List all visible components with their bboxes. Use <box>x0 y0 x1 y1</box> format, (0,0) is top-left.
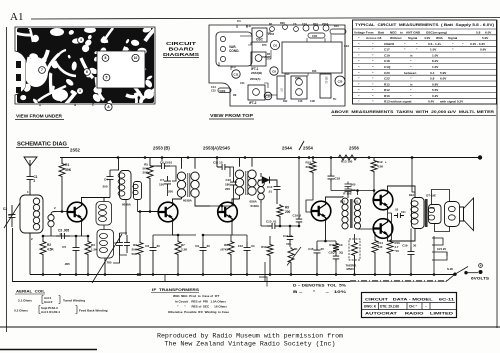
output emitters join <box>388 208 392 222</box>
svg-text:Feed Back Winding: Feed Back Winding <box>79 309 108 313</box>
junction dots stage3 <box>202 273 205 276</box>
pcb circled pad 3 <box>77 88 84 95</box>
svg-text:Gnd:2: Gnd:2 <box>44 300 53 304</box>
svg-text:C19: C19 <box>402 244 408 248</box>
measurements table frame <box>353 20 497 104</box>
svg-text:Otherwise Possible IFC Wind: Otherwise Possible IFC Winding to Case <box>168 310 229 314</box>
capacitors .005 .002 <box>345 184 352 198</box>
resistor R2 <box>42 236 44 240</box>
svg-text:B51: B51 <box>354 200 359 204</box>
resistor R14 <box>374 232 376 239</box>
svg-text:5.8: 5.8 <box>476 30 481 34</box>
svg-text:2S53(A)/2S4S: 2S53(A)/2S4S <box>203 146 230 151</box>
svg-text:ABOVE MEASUREMENTS TAKEN WI: ABOVE MEASUREMENTS TAKEN WITH 20,000 Ω/V… <box>331 110 495 114</box>
svg-text:R1: R1 <box>65 163 69 167</box>
svg-text:C11: C11 <box>240 81 245 85</box>
svg-text:CH: *: CH: * <box>409 305 418 309</box>
junction dots stage2 <box>139 273 142 276</box>
wire driver bias bus <box>331 190 374 192</box>
svg-text:4.0V: 4.0V <box>424 36 431 40</box>
svg-text:OSC: OSC <box>256 38 264 42</box>
svg-text:C16: C16 <box>308 247 314 251</box>
svg-text:R10: R10 <box>261 245 267 249</box>
svg-text:Tuned Winding: Tuned Winding <box>63 299 85 303</box>
capacitor C19 <box>410 229 412 248</box>
svg-text:OT-19E: OT-19E <box>426 194 436 198</box>
2S52 emitter wire <box>81 220 83 237</box>
transistor C9 on board <box>270 67 278 75</box>
svg-text:R8: R8 <box>224 243 228 247</box>
svg-text:5.0V: 5.0V <box>482 36 489 40</box>
svg-text:*10: *10 <box>395 249 400 253</box>
svg-text:TYPICAL CIRCUIT MEASUREMENTS: TYPICAL CIRCUIT MEASUREMENTS ( Batt Supp… <box>355 23 494 27</box>
svg-text:0.2V: 0.2V <box>432 94 439 98</box>
thermistor M560 <box>349 239 360 260</box>
svg-text:10: 10 <box>134 56 138 60</box>
earphone jack <box>432 238 443 245</box>
svg-text:2S54: 2S54 <box>303 146 313 151</box>
svg-text:8: 8 <box>105 56 107 60</box>
output transformer OT-19E <box>412 158 415 198</box>
svg-text:With: With <box>436 36 443 40</box>
svg-text:Voltage From: Voltage From <box>354 30 374 34</box>
credit strip rule <box>0 326 500 328</box>
svg-text:2.2K: 2.2K <box>181 248 188 252</box>
svg-text:0.2 Ohms: 0.2 Ohms <box>14 309 28 313</box>
svg-text:.05: .05 <box>395 208 399 212</box>
svg-text:R16: R16 <box>312 70 317 73</box>
output transformer on board <box>277 76 285 99</box>
antenna <box>24 157 37 173</box>
svg-text:to: to <box>400 30 403 34</box>
svg-text:VIEW FROM TOP: VIEW FROM TOP <box>210 113 253 118</box>
resistor R3 <box>87 236 89 240</box>
svg-text:C17 30: C17 30 <box>283 234 293 238</box>
wire stage1 emitter bus <box>43 235 88 237</box>
svg-text:2S6A: 2S6A <box>322 22 329 26</box>
svg-text:CIRCUIT: CIRCUIT <box>166 41 196 46</box>
svg-text:C20: C20 <box>384 71 390 75</box>
svg-text:2: 2 <box>92 103 94 107</box>
2S53A emitter wire <box>231 220 233 236</box>
svg-text:AUTOCRAT RADIO LIMITED: AUTOCRAT RADIO LIMITED <box>365 311 453 316</box>
svg-text:AERIAL COIL: AERIAL COIL <box>16 290 46 294</box>
wire R5 to Q2 base <box>138 211 159 213</box>
driver transformer IT-19E <box>342 198 348 204</box>
svg-text:COND.: COND. <box>229 49 239 53</box>
capacitor C20 <box>333 253 340 262</box>
svg-text:IF TRANSFORMERS: IF TRANSFORMERS <box>152 288 200 292</box>
svg-text:2: 2 <box>34 179 36 183</box>
pcb circled pad 6 <box>84 69 91 76</box>
svg-text:R15: R15 <box>334 24 339 28</box>
svg-text:In Circuit RES of PRI 1.: In Circuit RES of PRI 1.5A Ohms <box>175 300 226 304</box>
svg-text:C9: C9 <box>272 70 276 74</box>
resistor R11 <box>335 241 337 242</box>
svg-text:OSC(on gang): OSC(on gang) <box>426 30 447 34</box>
svg-text:2S44: 2S44 <box>282 146 292 151</box>
circuit board (view from under) outline <box>15 27 155 104</box>
svg-text:8.2V: 8.2V <box>432 59 439 63</box>
svg-text:C2: C2 <box>3 207 7 211</box>
wire detector to volume <box>260 203 262 226</box>
resistor R5 <box>149 158 151 165</box>
svg-text:Without: Without <box>390 36 401 40</box>
resistor R13 on rail <box>337 155 358 160</box>
svg-text:M560: M560 <box>347 267 355 271</box>
svg-text:2S53(B): 2S53(B) <box>262 56 271 59</box>
svg-text:2S53(B): 2S53(B) <box>251 71 262 75</box>
svg-text:50K: 50K <box>131 252 137 256</box>
svg-text:C11: C11 <box>234 73 239 77</box>
svg-text:2S53 (B): 2S53 (B) <box>153 146 170 151</box>
variable capacitor C2 <box>8 214 12 216</box>
resistor R9 <box>277 204 283 218</box>
svg-text:R11: R11 <box>329 243 335 247</box>
wire stage3 emitter bus <box>203 234 247 236</box>
svg-text:R15: R15 <box>305 161 311 165</box>
svg-text:C1: C1 <box>237 19 241 23</box>
svg-text:.005: .005 <box>350 183 356 187</box>
2S44 collector wire <box>326 196 344 204</box>
svg-text:4: 4 <box>80 38 82 42</box>
resistor R16 <box>387 240 393 255</box>
svg-text:6038A: 6038A <box>122 203 132 207</box>
svg-text:C14: C14 <box>267 185 273 189</box>
2S53B emitter wire <box>173 220 179 236</box>
capacitor C3 <box>56 233 70 239</box>
svg-text:6.0V: 6.0V <box>485 30 492 34</box>
resistor R12 <box>373 158 375 160</box>
2S53B collector wire <box>173 197 182 204</box>
svg-text:0.6V: 0.6V <box>480 48 487 52</box>
IFT-2 can <box>248 85 265 100</box>
svg-text:VOL: VOL <box>286 242 292 246</box>
capacitor C18 <box>330 158 332 174</box>
svg-text:C11 15: C11 15 <box>213 161 223 165</box>
svg-text:B2A: B2A <box>409 193 414 197</box>
capacitor C6 15/10 <box>150 165 156 167</box>
svg-text:NEG: NEG <box>390 30 397 34</box>
resistor R15 <box>312 158 314 161</box>
svg-text:" " RES of SEC: " " RES of SEC 16 Ohms <box>177 305 227 309</box>
resistor R1 <box>61 158 63 163</box>
svg-text:30: 30 <box>321 247 325 251</box>
svg-text:C4: C4 <box>104 177 108 181</box>
svg-text:IFT-2: IFT-2 <box>249 101 257 105</box>
svg-text:R9: R9 <box>285 206 289 210</box>
2S53A base wire <box>195 205 234 207</box>
svg-text:C3 .005: C3 .005 <box>58 229 69 233</box>
svg-text:BOARD: BOARD <box>169 47 195 52</box>
svg-text:0.6 - 1.2v: 0.6 - 1.2v <box>428 42 441 46</box>
volume ground detour <box>264 262 266 282</box>
svg-text:4.5K: 4.5K <box>47 248 54 252</box>
capacitor C1 <box>27 173 34 183</box>
svg-text:Signal: Signal <box>408 36 417 40</box>
svg-text:S.W.: S.W. <box>447 267 454 271</box>
svg-text:R1: R1 <box>269 22 273 26</box>
svg-text:C19: C19 <box>384 54 390 58</box>
circuit data box outer <box>362 293 457 318</box>
capacitor C4 <box>110 169 119 171</box>
svg-text:200: 200 <box>285 210 291 214</box>
svg-text:–: – <box>425 305 427 309</box>
capacitor C14 <box>274 182 281 194</box>
svg-text:6VOLTS: 6VOLTS <box>471 277 490 281</box>
svg-text:+: + <box>480 264 482 268</box>
IFT-1 can <box>251 52 266 66</box>
svg-text:R12: R12 <box>384 88 390 92</box>
svg-text:R13 without signal: R13 without signal <box>384 100 411 104</box>
speaker mount circle on board <box>335 76 345 86</box>
svg-text:R12: R12 <box>384 82 390 86</box>
aerial coil L1 <box>20 195 43 233</box>
svg-text:R12: R12 <box>377 160 383 164</box>
svg-text:C2Q: C2Q <box>329 251 336 255</box>
pcb left notch tabs <box>16 61 21 68</box>
svg-text:30: 30 <box>207 244 211 248</box>
svg-text:C5: C5 <box>62 245 66 249</box>
svg-text:B52: B52 <box>430 207 435 210</box>
svg-text:2.1 Ohms: 2.1 Ohms <box>18 299 32 303</box>
output transistors pair on board <box>291 76 307 99</box>
board top small parts row <box>270 27 275 32</box>
svg-text:CIRCUIT DATA - MODEL 6C-1: CIRCUIT DATA - MODEL 6C-11 <box>365 298 454 302</box>
junction dots stage5 <box>389 273 392 276</box>
capacitor C12 <box>246 235 248 242</box>
capacitor C10 <box>229 167 231 177</box>
svg-text:with signal 0.2V: with signal 0.2V <box>439 100 464 104</box>
wire antenna to aerial coil <box>29 183 31 195</box>
capacitor C11 <box>216 158 218 168</box>
pcb etched channels <box>0 19 177 123</box>
capacitor C17 <box>289 226 291 234</box>
svg-text:DWG: K: DWG: K <box>364 305 377 309</box>
svg-text:The New Zealand Vintage Radio: The New Zealand Vintage Radio Society (I… <box>165 341 336 348</box>
2S44 emitter wire <box>325 219 327 242</box>
junction dots stage4 <box>316 273 319 276</box>
svg-text:330: 330 <box>378 245 383 249</box>
svg-text:260: 260 <box>217 62 221 67</box>
svg-text:B – " – 10%: B – " – 10% <box>293 290 346 294</box>
wire stage2 emitter bus <box>153 234 196 236</box>
svg-text:C17: C17 <box>384 48 390 52</box>
capacitor C9 <box>202 235 204 242</box>
bottom left rule <box>0 349 97 351</box>
svg-text:200: 200 <box>225 187 230 191</box>
svg-text:4: 4 <box>74 103 76 107</box>
svg-text:B12: B12 <box>340 200 345 204</box>
svg-text:7: 7 <box>41 68 43 72</box>
svg-text:C12: C12 <box>238 244 244 248</box>
transistor Q5 2S56 upper <box>373 190 393 210</box>
svg-text:1.0V: 1.0V <box>432 65 439 69</box>
svg-text:C20: C20 <box>338 80 343 84</box>
speaker <box>432 190 450 205</box>
svg-text:3: 3 <box>79 89 81 93</box>
svg-text:0.15 - 0.3V: 0.15 - 0.3V <box>470 42 486 46</box>
svg-text:C15 .01: C15 .01 <box>266 220 277 224</box>
svg-text:R14: R14 <box>285 73 290 76</box>
board central clear area <box>282 42 342 73</box>
top supply rail <box>60 157 480 159</box>
capacitor C8 <box>152 235 154 242</box>
svg-text:5.8: 5.8 <box>430 77 435 81</box>
svg-text:.01: .01 <box>268 190 272 194</box>
svg-text:150: 150 <box>159 183 164 187</box>
svg-text:30K: 30K <box>65 168 72 172</box>
svg-text:Batt: Batt <box>378 30 384 34</box>
svg-text:TH: TH <box>333 98 336 101</box>
capacitor C16 <box>316 241 318 245</box>
svg-text:R.O: R.O <box>231 65 236 69</box>
svg-text:ANT GND: ANT GND <box>406 30 421 34</box>
transistor C11 on board <box>232 70 240 78</box>
output collectors to OT <box>388 186 416 198</box>
capacitor C5 <box>75 236 77 242</box>
svg-text:785: 785 <box>107 261 112 265</box>
svg-text:6038A: 6038A <box>183 199 193 203</box>
svg-text:C21 20: C21 20 <box>437 247 446 251</box>
svg-text:R20: R20 <box>280 21 285 25</box>
pcb circled pad 7 <box>39 67 46 74</box>
capacitor C19-3 feed <box>298 158 300 216</box>
svg-text:C6 15/10: C6 15/10 <box>160 161 173 165</box>
svg-text:20K: 20K <box>305 165 311 169</box>
oscillator transformer 6038A <box>118 158 120 171</box>
capacitor C7 <box>164 176 171 189</box>
variable condenser block <box>216 32 252 66</box>
svg-text:5.9V: 5.9V <box>440 71 447 75</box>
svg-text:C8: C8 <box>145 244 149 248</box>
component board (view from top) outline <box>209 25 345 106</box>
resistor R8 <box>230 235 232 240</box>
svg-text:2S52: 2S52 <box>70 148 80 153</box>
svg-text:R6: R6 <box>133 243 137 247</box>
svg-text:5K: 5K <box>294 247 298 251</box>
svg-text:C18: C18 <box>384 59 390 63</box>
svg-text:6: 6 <box>86 70 88 74</box>
transistor Q3 2S53(A) <box>218 202 238 222</box>
svg-text:200: 200 <box>103 184 108 188</box>
IF transformer IFT-1 6038A <box>177 172 185 180</box>
svg-text:(47K): (47K) <box>220 248 228 252</box>
svg-text:180: 180 <box>225 183 230 187</box>
top rail end dot <box>478 155 482 159</box>
capacitor C21 .05 <box>394 213 404 218</box>
svg-text:5.5V: 5.5V <box>432 88 439 92</box>
wire driver secondary to output bases <box>357 191 359 196</box>
svg-text:30: 30 <box>413 244 417 248</box>
svg-text:between: between <box>404 71 416 75</box>
transistor Q6 2S56 lower <box>373 219 393 239</box>
transistor C20 on board <box>264 92 272 100</box>
on-off switch S.W. <box>453 273 456 276</box>
svg-text:.04: .04 <box>251 244 255 248</box>
volume potentiometer <box>288 247 294 264</box>
svg-text:200: 200 <box>168 190 173 194</box>
svg-text:6106A: 6106A <box>251 204 260 208</box>
svg-text:is: is <box>410 82 413 86</box>
svg-text:R2: R2 <box>47 243 51 247</box>
svg-text:R9: R9 <box>233 93 237 97</box>
svg-text:6.0V: 6.0V <box>440 77 447 81</box>
svg-text:2S53(A): 2S53(A) <box>250 77 260 81</box>
svg-text:301-11: 301-11 <box>325 76 328 84</box>
svg-text:R?6: R?6 <box>262 44 267 47</box>
svg-text:C1D: C1D <box>312 34 317 38</box>
svg-text:SCHEMATIC DIAG: SCHEMATIC DIAG <box>17 142 67 148</box>
feedback winding <box>48 215 54 221</box>
pcb circled pad 5 <box>103 74 110 81</box>
svg-text:Ant:1 R1,R2-4: Ant:1 R1,R2-4 <box>41 310 60 314</box>
wire base 2S52 <box>56 211 68 213</box>
svg-text:2S56: 2S56 <box>295 77 301 80</box>
svg-text:DIAGRAMS: DIAGRAMS <box>163 52 199 57</box>
svg-text:C14: C14 <box>211 85 216 89</box>
2S53A collector wire <box>232 195 240 204</box>
pcb clear rectangle <box>97 51 145 88</box>
svg-text:C7: C7 <box>160 178 164 182</box>
right margin line <box>496 20 498 328</box>
svg-text:C8&C8: C8&C8 <box>384 42 394 46</box>
svg-text:C10: C10 <box>225 178 231 182</box>
svg-text:C21: C21 <box>401 211 406 214</box>
svg-text:0.8V: 0.8V <box>432 82 439 86</box>
oscillator coil can <box>252 28 267 42</box>
svg-text:1.0V: 1.0V <box>432 54 439 58</box>
oscillator coupling winding <box>96 202 112 226</box>
svg-text:is: is <box>410 54 413 58</box>
battery terminal +6VOLTS <box>466 272 478 274</box>
outer return wire <box>13 228 201 282</box>
resistor R6 <box>139 212 141 242</box>
capacitor C15 <box>267 223 280 229</box>
svg-text:R13 100: R13 100 <box>341 160 353 164</box>
rail link wire <box>164 275 166 282</box>
svg-text:R3: R3 <box>91 243 95 247</box>
wire IFT-1 secondary to Q3 <box>195 197 210 206</box>
svg-text:Across C8: Across C8 <box>366 36 382 40</box>
svg-text:C1Q: C1Q <box>384 65 391 69</box>
resistor R7 <box>177 235 179 240</box>
svg-text:20K: 20K <box>131 248 137 252</box>
svg-text:D – DENOTES TOL 5%: D – DENOTES TOL 5% <box>293 284 346 288</box>
measurements table row lines <box>353 28 497 30</box>
wire aerial coil to ground rail <box>29 233 31 275</box>
transistor Q1 2S52 <box>67 202 87 222</box>
svg-text:C19: C19 <box>302 22 307 26</box>
svg-text:5: 5 <box>106 76 108 80</box>
svg-text:R7: R7 <box>181 243 185 247</box>
top rule <box>31 18 500 20</box>
svg-text:A1: A1 <box>10 11 23 23</box>
IF transformer IFT-2 6106A <box>235 170 243 178</box>
left margin line <box>6 27 8 332</box>
pcb copper fill <box>17 28 154 103</box>
svg-text:C19 I3: C19 I3 <box>293 214 302 218</box>
board interconnect wires <box>240 35 252 37</box>
svg-text:C18: C18 <box>335 177 341 181</box>
svg-text:.005: .005 <box>64 262 70 266</box>
svg-text:With NEG Prod to Case of: With NEG Prod to Case of IFT <box>173 294 219 298</box>
svg-text:3.4: 3.4 <box>430 71 435 75</box>
svg-text:Reproduced by Radio Museum wit: Reproduced by Radio Museum with permissi… <box>157 333 343 340</box>
bottom ground rail <box>30 274 455 276</box>
svg-text:R10: R10 <box>313 22 318 26</box>
svg-text:30: 30 <box>157 244 161 248</box>
